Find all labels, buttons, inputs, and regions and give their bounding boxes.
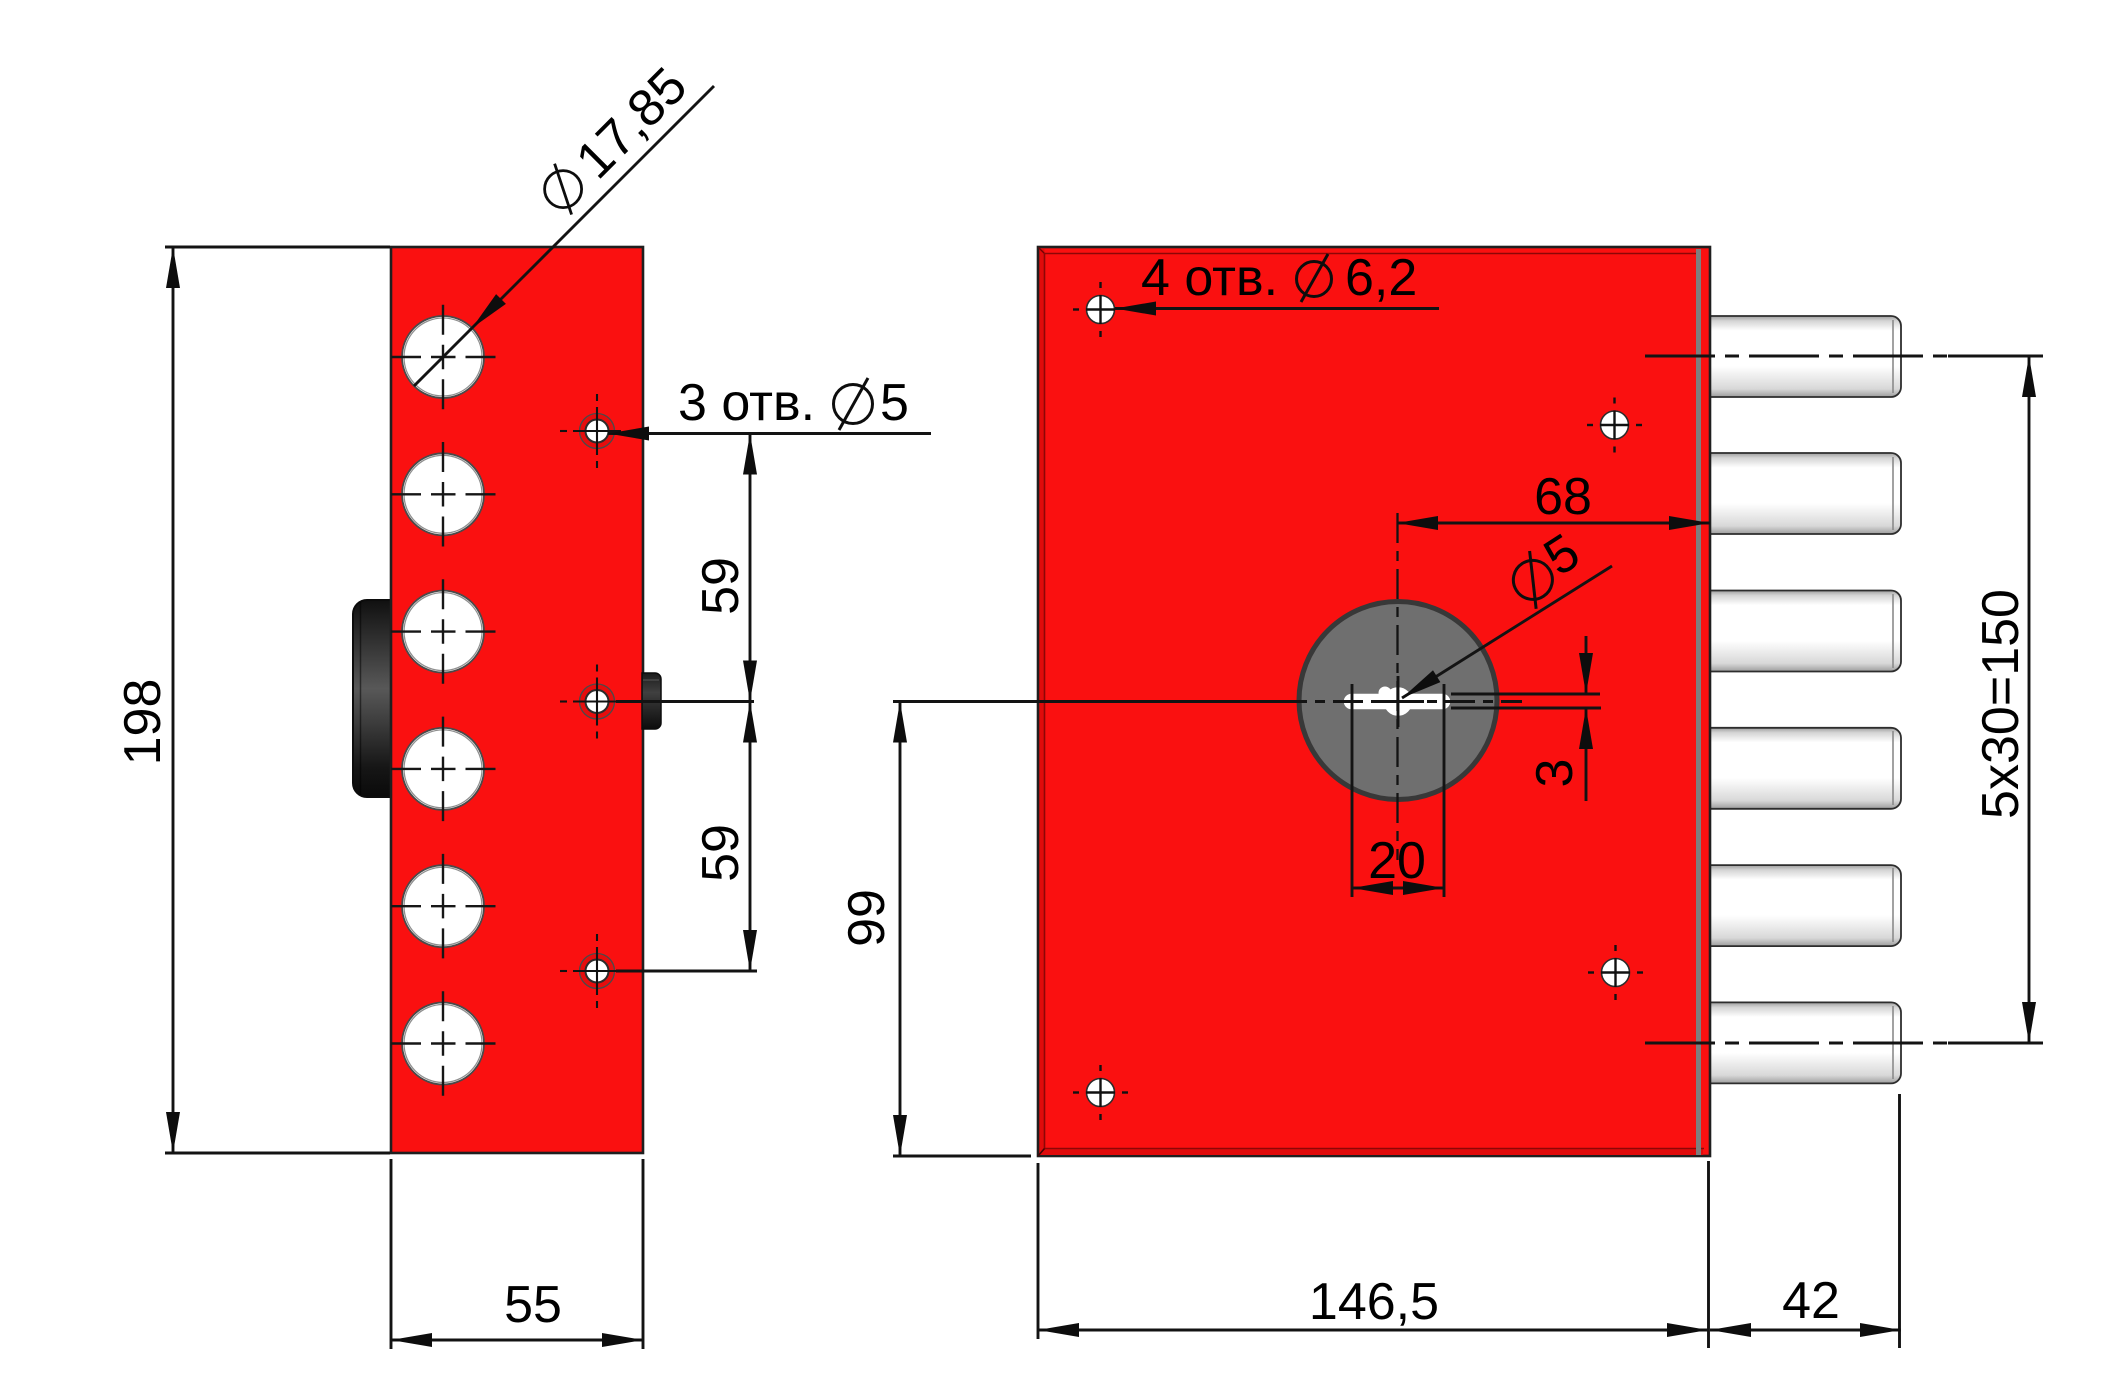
svg-text:59: 59 bbox=[692, 824, 750, 882]
line through hole S3 bbox=[616, 970, 757, 973]
dim 198 line bbox=[172, 247, 175, 1153]
centermarks of 6 holes bbox=[391, 305, 496, 1096]
bolt P4 bbox=[1708, 728, 1901, 809]
arrows 5x30=150 bbox=[2022, 356, 2036, 397]
hole B4 bbox=[402, 728, 484, 810]
dim 55 extension lines bbox=[390, 1159, 393, 1349]
dim 20 extension lines bbox=[1351, 684, 1354, 897]
hole B3 bbox=[402, 591, 484, 673]
hole B1 bbox=[402, 316, 484, 398]
arrow 55 left bbox=[391, 1333, 432, 1347]
dim 146.5 line bbox=[1038, 1329, 1708, 1332]
dims left bbox=[165, 86, 931, 1349]
dim 99 ext top (to keyhole) bbox=[893, 700, 1277, 703]
dim 59/59 line bbox=[749, 434, 752, 972]
hole B2 bbox=[402, 453, 484, 535]
svg-text:42: 42 bbox=[1782, 1272, 1840, 1330]
svg-text:4 отв.: 4 отв. bbox=[1141, 249, 1278, 307]
label d5 bbox=[1498, 523, 1591, 612]
svg-text:198: 198 bbox=[114, 679, 172, 766]
bevel shading left/bottom bbox=[1040, 249, 1045, 1154]
bolt P3 bbox=[1708, 591, 1901, 672]
plate right view (lock body front 146.5x198) bbox=[1038, 247, 1710, 1156]
dim 99 line bbox=[899, 702, 902, 1157]
svg-text:20: 20 bbox=[1368, 832, 1426, 890]
arrows 20 bbox=[1352, 881, 1393, 895]
hole B5 bbox=[402, 865, 484, 947]
hole M4 bbox=[1087, 1079, 1115, 1107]
svg-text:99: 99 bbox=[838, 889, 896, 947]
bolt P5 bbox=[1708, 865, 1901, 946]
leader d5 bbox=[1402, 566, 1612, 698]
centerline vertical of keyhole (dash-dot) bbox=[1396, 513, 1398, 860]
keyhole slot bbox=[1345, 688, 1449, 715]
hole M2 bbox=[1601, 411, 1629, 439]
small knob on right edge (key cylinder, side view) bbox=[642, 673, 661, 729]
hole S2 bbox=[580, 684, 615, 719]
hole S1 bbox=[580, 414, 615, 449]
arrow 55 right bbox=[602, 1333, 643, 1347]
dim 42 ext right bbox=[1898, 1094, 1901, 1348]
leader 3 otv d5 bbox=[608, 432, 931, 435]
arrow 4otv bbox=[1115, 302, 1156, 316]
bolt P1 bbox=[1708, 316, 1901, 397]
hole B6 bbox=[402, 1003, 484, 1085]
dim 146.5 / 42 shared ext bbox=[1707, 1161, 1710, 1348]
dim 55 line bbox=[391, 1339, 643, 1342]
label d17,85 bbox=[531, 57, 698, 224]
centerline bolt P6 (dash-dot) bbox=[1645, 1042, 1948, 1045]
dim 20 line bbox=[1352, 887, 1444, 890]
arrows 3 bbox=[1579, 653, 1593, 694]
6 bolt holes d17.85 bbox=[402, 316, 484, 1085]
keyhole escutcheon bbox=[1299, 602, 1497, 800]
centermarks of mounting holes bbox=[1073, 282, 1643, 1120]
arrows 146.5 bbox=[1038, 1323, 1079, 1337]
hole M3 bbox=[1602, 959, 1630, 987]
dim 68 line bbox=[1397, 522, 1710, 525]
centerline horizontal of keyhole (dash-dot) bbox=[1277, 700, 1522, 703]
arrow 3otv bbox=[608, 427, 649, 441]
svg-text:3 отв.: 3 отв. bbox=[678, 374, 815, 432]
arrow 198 top bbox=[166, 247, 180, 288]
svg-text:68: 68 bbox=[1534, 468, 1592, 526]
arrows 42 bbox=[1710, 1323, 1751, 1337]
arrow d17.85 bbox=[472, 294, 506, 328]
knob (thumbturn cylinder, side view) bbox=[353, 600, 392, 797]
svg-text:6,2: 6,2 bbox=[1345, 249, 1417, 307]
hole S3 bbox=[580, 954, 615, 989]
svg-text:5x30=150: 5x30=150 bbox=[1972, 589, 2030, 819]
keyhole crosshair bbox=[1397, 676, 1400, 727]
crosshairs of small holes bbox=[560, 394, 621, 1008]
arrow 59 top (up) bbox=[743, 434, 757, 475]
leader 4 otv d6.2 bbox=[1115, 307, 1439, 310]
arrows 59 middle bbox=[743, 661, 757, 702]
arrow d5 bbox=[1402, 670, 1440, 698]
leader d17.85 bbox=[414, 86, 714, 386]
line through hole S2 bbox=[616, 700, 754, 703]
arrows 99 bbox=[893, 702, 907, 743]
arrows 68 bbox=[1397, 516, 1438, 530]
faceplate edge (gray strip) bbox=[1696, 249, 1701, 1155]
bolt P2 bbox=[1708, 453, 1901, 534]
dim 146.5 ext left bbox=[1037, 1163, 1040, 1339]
dim 42 line bbox=[1710, 1329, 1901, 1332]
dim 99 ext bottom bbox=[893, 1155, 1031, 1158]
bevel edge lines bbox=[1044, 253, 1046, 1149]
4 mounting holes d6.2 bbox=[1087, 296, 1630, 1107]
svg-text:146,5: 146,5 bbox=[1309, 1273, 1439, 1331]
dim 198 extension lines bbox=[165, 246, 390, 249]
arrow 198 bottom bbox=[166, 1112, 180, 1153]
svg-text:5: 5 bbox=[880, 374, 909, 432]
arrow 59 bottom (down) bbox=[743, 930, 757, 971]
svg-text:3: 3 bbox=[1526, 759, 1584, 788]
dims right bbox=[893, 309, 2043, 1349]
svg-text:59: 59 bbox=[692, 557, 750, 615]
plate left view (red side plate 55x198) bbox=[391, 247, 661, 1153]
bolt P6 bbox=[1708, 1002, 1901, 1083]
dim 3 vertical bbox=[1585, 636, 1588, 694]
3 small holes d5 with countersink ring bbox=[580, 414, 615, 989]
dim 3: top/bottom lines bbox=[1451, 693, 1600, 696]
dim 5x30=150 line bbox=[2028, 356, 2031, 1043]
centerline bolt P1 (dash-dot) bbox=[1645, 355, 1948, 358]
hole M1 bbox=[1087, 296, 1115, 324]
svg-text:55: 55 bbox=[504, 1276, 562, 1334]
